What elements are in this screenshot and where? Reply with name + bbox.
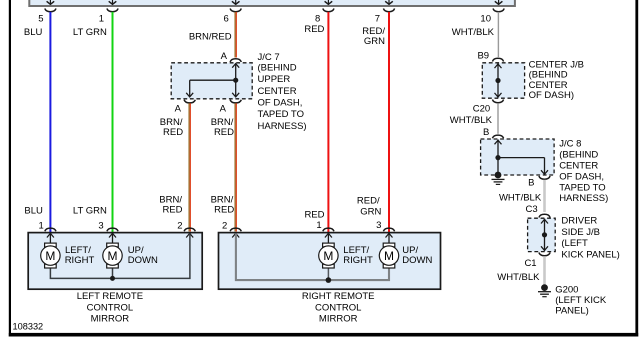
- driver side J/B arrow up: [541, 219, 548, 223]
- J/C 7 arrow up: [232, 64, 239, 68]
- svg-text:OF DASH): OF DASH): [529, 90, 574, 101]
- connector arc right mirror pin 2: [230, 228, 241, 231]
- left mirror pin 2 arrow up: [186, 233, 193, 237]
- svg-text:BLU: BLU: [24, 205, 43, 216]
- J/C 8 internal ground: [495, 172, 502, 179]
- svg-text:J/C 8: J/C 8: [559, 139, 581, 150]
- switch pin 8 down-arrow: [327, 0, 329, 4]
- motor M up/down (left mirror): [107, 243, 119, 247]
- center J/B arrow down: [495, 93, 502, 97]
- connector arc below switch pin 8: [323, 9, 334, 12]
- svg-text:6: 6: [224, 13, 229, 24]
- svg-text:M: M: [45, 249, 55, 263]
- svg-text:DRIVER: DRIVER: [561, 216, 597, 227]
- driver side J/B internal conductor: [544, 219, 546, 251]
- svg-text:C1: C1: [524, 258, 536, 269]
- wire BLU (switch 5 to left mirror 1): [49, 12, 51, 232]
- connector arc B below J/C 8: [539, 176, 550, 179]
- svg-text:M: M: [323, 249, 333, 263]
- left mirror internal wiring: [49, 233, 51, 243]
- svg-text:108332: 108332: [13, 321, 44, 331]
- svg-text:3: 3: [98, 220, 103, 231]
- svg-text:OF DASH,: OF DASH,: [559, 171, 604, 182]
- switch pin 6 down-arrow: [235, 0, 237, 4]
- J/C 7 arrow down right: [232, 93, 239, 97]
- left mirror pin 1 arrow up: [47, 233, 54, 237]
- wire WHT/BLK (C20 to J/C 8 B): [497, 103, 499, 134]
- svg-text:3: 3: [376, 220, 381, 231]
- svg-text:2: 2: [177, 221, 182, 232]
- svg-text:B: B: [528, 178, 534, 189]
- svg-text:(BEHIND: (BEHIND: [258, 63, 297, 74]
- svg-text:WHT/BLK: WHT/BLK: [499, 193, 542, 204]
- connector arc left mirror pin 2: [184, 228, 195, 231]
- right mirror internal wiring: [236, 233, 389, 280]
- svg-text:7: 7: [375, 13, 380, 24]
- motor M left/right (left mirror): [45, 243, 57, 247]
- svg-text:CONTROL: CONTROL: [315, 303, 361, 314]
- connector arc below switch pin 5: [45, 9, 56, 12]
- svg-text:5: 5: [38, 13, 43, 24]
- right mirror pin 2 arrow up: [232, 233, 239, 237]
- J/C 8 internal conductor: [497, 140, 499, 175]
- svg-text:A: A: [220, 103, 227, 114]
- J/C 7 junction dot: [233, 78, 238, 83]
- svg-text:DOWN: DOWN: [402, 255, 432, 266]
- svg-text:CONTROL: CONTROL: [87, 303, 133, 314]
- svg-text:1: 1: [316, 220, 321, 231]
- svg-text:MIRROR: MIRROR: [319, 313, 358, 324]
- J/C 8 arrow down: [541, 170, 548, 174]
- connector arc below switch pin 6: [230, 9, 241, 12]
- svg-text:G200: G200: [555, 284, 578, 295]
- wire BRN/RED (J/C 7 to left mirror 2): [188, 103, 190, 231]
- switch pin 10 down-arrow: [498, 0, 500, 4]
- svg-text:TAPED TO: TAPED TO: [559, 182, 605, 193]
- svg-text:RED: RED: [214, 205, 234, 216]
- junction connector J/C 7 box: [171, 63, 252, 99]
- svg-text:WHT/BLK: WHT/BLK: [450, 115, 493, 126]
- svg-text:CENTER: CENTER: [258, 86, 297, 97]
- svg-text:M: M: [384, 249, 394, 263]
- connector arc below switch pin 1: [107, 9, 118, 12]
- connector arc below switch pin 10: [493, 9, 504, 12]
- connector arc below J/C 7 right: [230, 100, 241, 103]
- frame left border: [9, 0, 11, 337]
- frame bottom border: [9, 333, 638, 337]
- svg-text:1: 1: [39, 220, 44, 231]
- wire LT GRN (switch 1 to left mirror 3): [112, 12, 114, 232]
- wire WHT/BLK (C1 to G200): [543, 256, 546, 285]
- wire WHT/BLK (J/C 8 B to driver side J/B C3): [543, 180, 546, 212]
- svg-text:BRN/RED: BRN/RED: [189, 31, 232, 42]
- switch pin 7 down-arrow: [388, 0, 390, 4]
- junction connector J/C 8 box: [481, 139, 554, 175]
- svg-text:SIDE J/B: SIDE J/B: [561, 227, 600, 238]
- svg-text:GRN: GRN: [364, 36, 385, 47]
- svg-text:A: A: [221, 51, 228, 62]
- motor M up/down (right mirror): [383, 243, 395, 247]
- svg-text:KICK PANEL): KICK PANEL): [561, 249, 619, 260]
- svg-text:GRN: GRN: [360, 207, 381, 218]
- driver side J/B arrow down: [541, 246, 548, 250]
- svg-text:RED/: RED/: [357, 195, 380, 206]
- frame right border: [635, 0, 638, 337]
- svg-text:BLU: BLU: [24, 27, 43, 38]
- svg-text:WHT/BLK: WHT/BLK: [452, 27, 495, 38]
- wire RED/GRN (switch 7 to right mirror 3): [388, 12, 390, 232]
- svg-text:(LEFT: (LEFT: [561, 238, 588, 249]
- J/C 8 arrow up: [495, 140, 502, 144]
- left remote control mirror box: [28, 233, 202, 290]
- connector arc below J/C 7 left: [184, 100, 195, 103]
- driver side J/B junction dot: [542, 232, 547, 237]
- left mirror pin 3 arrow up: [109, 233, 116, 237]
- svg-text:UPPER: UPPER: [258, 74, 291, 85]
- svg-text:LT GRN: LT GRN: [73, 205, 107, 216]
- svg-text:C20: C20: [473, 103, 490, 114]
- svg-text:OF DASH,: OF DASH,: [258, 98, 303, 109]
- J/C 7 arrow down left: [186, 93, 193, 97]
- svg-text:LT GRN: LT GRN: [73, 27, 107, 38]
- svg-text:TAPED TO: TAPED TO: [258, 109, 304, 120]
- ground G200: [541, 284, 548, 291]
- svg-text:RED: RED: [214, 127, 234, 138]
- connector arc right mirror pin 1: [323, 228, 334, 231]
- svg-text:C3: C3: [526, 204, 538, 215]
- right mirror pin 3 arrow up: [386, 233, 393, 237]
- connector arc C3: [539, 214, 550, 217]
- connector arc left mirror pin 3: [107, 228, 118, 231]
- svg-text:M: M: [108, 249, 118, 263]
- svg-text:(BEHIND: (BEHIND: [559, 150, 598, 161]
- wire RED (switch 8 to right mirror 1): [327, 12, 329, 232]
- wire WHT/BLK (switch 10 to center J/B B9): [497, 12, 499, 57]
- svg-text:B9: B9: [477, 50, 489, 61]
- connector arc C1: [539, 253, 550, 256]
- svg-text:RIGHT: RIGHT: [65, 255, 95, 266]
- svg-text:RED: RED: [162, 205, 182, 216]
- svg-text:(LEFT KICK: (LEFT KICK: [555, 295, 607, 306]
- connector arc right mirror pin 3: [383, 228, 394, 231]
- svg-text:PANEL): PANEL): [555, 306, 589, 317]
- center J/B internal conductor: [497, 63, 499, 97]
- mirror control switch box (cut off at top): [29, 0, 515, 6]
- connector arc B9: [492, 58, 503, 61]
- svg-text:B: B: [483, 127, 489, 138]
- connector arc B above J/C 8: [492, 135, 503, 138]
- connector arc C20: [492, 100, 503, 103]
- svg-text:10: 10: [480, 13, 491, 24]
- center J/B box: [482, 63, 524, 98]
- switch pin 5 down-arrow: [49, 0, 51, 4]
- svg-text:MIRROR: MIRROR: [91, 313, 130, 324]
- J/C 8 junction dot: [495, 155, 500, 160]
- svg-text:A: A: [175, 103, 182, 114]
- center J/B junction dot: [495, 78, 500, 83]
- svg-text:RIGHT REMOTE: RIGHT REMOTE: [302, 291, 375, 302]
- svg-text:WHT/BLK: WHT/BLK: [497, 272, 540, 283]
- svg-text:LEFT REMOTE: LEFT REMOTE: [77, 291, 143, 302]
- svg-text:1: 1: [99, 13, 104, 24]
- svg-text:RED: RED: [304, 24, 324, 35]
- svg-text:2: 2: [222, 221, 227, 232]
- svg-text:RED: RED: [163, 127, 183, 138]
- svg-text:RED: RED: [304, 209, 324, 220]
- motor M left/right (right mirror): [323, 243, 335, 247]
- center J/B arrow up: [495, 64, 502, 68]
- svg-text:HARNESS): HARNESS): [559, 193, 608, 204]
- right mirror bus junction dot: [326, 277, 332, 283]
- svg-text:8: 8: [315, 13, 320, 24]
- wire BRN/RED (J/C 7 to right mirror 2): [234, 103, 236, 231]
- svg-text:HARNESS): HARNESS): [258, 121, 307, 132]
- J/C 7 internal conductor: [235, 63, 237, 96]
- wire BRN/RED (switch 6 to J/C 7): [234, 12, 236, 58]
- connector arc A above J/C 7: [230, 59, 241, 62]
- driver side J/B box: [528, 218, 556, 251]
- switch pin 1 down-arrow: [112, 0, 114, 4]
- right mirror pin 1 arrow up: [325, 233, 332, 237]
- left mirror bus junction dot: [110, 276, 115, 281]
- right remote control mirror box: [219, 233, 441, 290]
- connector arc left mirror pin 1: [45, 228, 56, 231]
- svg-text:CENTER: CENTER: [559, 161, 598, 172]
- svg-text:DOWN: DOWN: [128, 255, 158, 266]
- svg-text:RIGHT: RIGHT: [343, 255, 373, 266]
- connector arc below switch pin 7: [383, 9, 394, 12]
